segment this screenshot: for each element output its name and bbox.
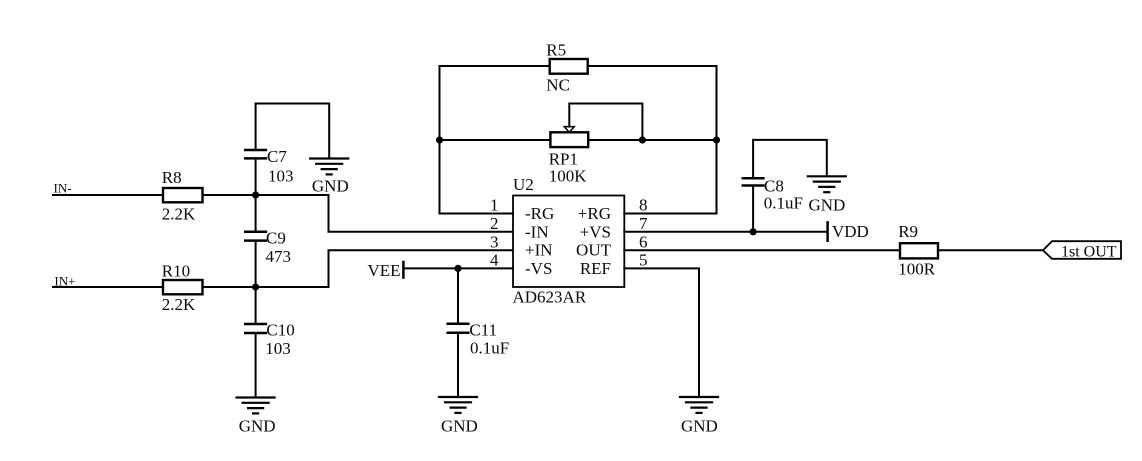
svg-text:IN-: IN- [54, 180, 72, 195]
svg-text:VEE: VEE [368, 261, 401, 280]
node right rail junction [713, 136, 720, 143]
pin 2 label -IN [525, 222, 611, 241]
node IN- label [54, 180, 72, 195]
svg-text:GND: GND [239, 417, 276, 436]
svg-text:+VS: +VS [580, 222, 611, 241]
capacitor C7 [245, 104, 293, 196]
node IN+ label [54, 273, 75, 288]
port 1st OUT [1043, 241, 1121, 260]
resistor R10 [162, 262, 203, 315]
svg-text:473: 473 [266, 247, 292, 266]
node C8 junction [750, 228, 757, 235]
svg-text:3: 3 [490, 232, 499, 251]
svg-text:OUT: OUT [576, 241, 612, 260]
node left rail junction [436, 136, 443, 143]
wire RP1 wiper [569, 104, 642, 141]
wire IN- input [53, 194, 163, 196]
pin number 6 [639, 232, 648, 251]
capacitor C10 [245, 287, 294, 398]
wire IN+ input [53, 286, 163, 288]
svg-text:100K: 100K [549, 167, 588, 186]
wire VEE to pin 4 [403, 267, 513, 269]
wire node B to pin 3 [256, 250, 513, 287]
wire right rail [716, 66, 718, 214]
wire pin 1 to left rail [440, 213, 514, 215]
wire C8 top to ground [753, 140, 827, 176]
svg-text:C9: C9 [266, 228, 286, 247]
ground GND5 (C8) [808, 176, 846, 214]
ground GND1 (C7) [310, 159, 349, 196]
wire pin 5 REF to ground [624, 268, 699, 397]
node B junction [252, 283, 259, 290]
svg-text:U2: U2 [513, 175, 534, 194]
capacitor C11 [448, 268, 510, 397]
svg-text:GND: GND [809, 196, 846, 215]
wire pin 6 OUT to R9 [624, 249, 900, 251]
svg-text:2.2K: 2.2K [162, 295, 196, 314]
svg-text:100R: 100R [898, 260, 936, 279]
svg-text:R9: R9 [898, 222, 918, 241]
pin 3 label +IN [525, 241, 612, 260]
svg-text:1st OUT: 1st OUT [1061, 244, 1117, 261]
wire node A to pin 2 [256, 195, 513, 232]
power VEE [368, 261, 404, 280]
pin 1 label -RG [525, 204, 611, 223]
svg-text:6: 6 [639, 232, 648, 251]
svg-text:C10: C10 [266, 321, 294, 340]
svg-text:1: 1 [490, 196, 499, 215]
svg-text:C7: C7 [267, 147, 287, 166]
wire C7 top to ground [256, 104, 330, 159]
svg-text:103: 103 [265, 339, 291, 358]
wire R10 to node B [203, 286, 256, 288]
svg-text:-RG: -RG [525, 204, 554, 223]
node wiper junction [639, 136, 646, 143]
svg-text:103: 103 [268, 167, 294, 186]
pin number 8 [639, 196, 648, 215]
wire R8 to node A [203, 194, 256, 196]
svg-text:+IN: +IN [525, 241, 553, 260]
svg-text:R5: R5 [546, 40, 566, 59]
wire middle (RP1 net) [440, 139, 717, 141]
svg-text:AD623AR: AD623AR [513, 288, 587, 307]
svg-text:REF: REF [580, 259, 611, 278]
resistor R9 [898, 222, 938, 279]
wire R9 to output port [938, 249, 1043, 251]
svg-text:NC: NC [546, 76, 570, 95]
svg-text:-IN: -IN [525, 222, 549, 241]
svg-text:VDD: VDD [832, 222, 869, 241]
resistor R5 [546, 40, 587, 94]
svg-text:GND: GND [312, 177, 349, 196]
pin number 3 [490, 232, 499, 251]
pin number 7 [639, 214, 648, 233]
svg-text:R10: R10 [162, 262, 190, 281]
pin number 5 [639, 250, 648, 269]
ground GND4 (REF) [680, 397, 718, 436]
svg-text:7: 7 [639, 214, 648, 233]
ground GND2 (C10) [237, 398, 276, 436]
potentiometer RP1 [549, 127, 589, 186]
op-amp U2 AD623AR body [513, 175, 625, 307]
svg-text:0.1uF: 0.1uF [764, 194, 803, 213]
ground GND3 (C11) [439, 397, 478, 436]
wire pin 8 to right rail [624, 213, 716, 215]
node A junction [252, 191, 259, 198]
svg-text:+RG: +RG [578, 204, 611, 223]
svg-text:8: 8 [639, 196, 648, 215]
pin number 1 [490, 196, 499, 215]
svg-text:0.1uF: 0.1uF [470, 339, 509, 358]
svg-text:R8: R8 [162, 168, 182, 187]
svg-text:-VS: -VS [525, 259, 552, 278]
svg-text:C11: C11 [469, 321, 497, 340]
capacitor C9 [245, 195, 291, 287]
power VDD [828, 222, 869, 241]
svg-text:2.2K: 2.2K [162, 205, 196, 224]
node C11 junction [454, 265, 461, 272]
svg-text:GND: GND [681, 417, 718, 436]
wire top feedback (R5 net) [440, 65, 717, 67]
pin number 4 [490, 250, 499, 269]
pin 4 label -VS [525, 259, 611, 278]
pin number 2 [490, 214, 499, 233]
svg-text:5: 5 [639, 250, 648, 269]
resistor R8 [162, 168, 203, 224]
capacitor C8 [743, 140, 803, 232]
svg-text:4: 4 [490, 250, 499, 269]
wire left rail [439, 66, 441, 214]
svg-text:GND: GND [441, 417, 478, 436]
wire pin 7 +VS to VDD [624, 231, 827, 233]
svg-text:2: 2 [490, 214, 499, 233]
